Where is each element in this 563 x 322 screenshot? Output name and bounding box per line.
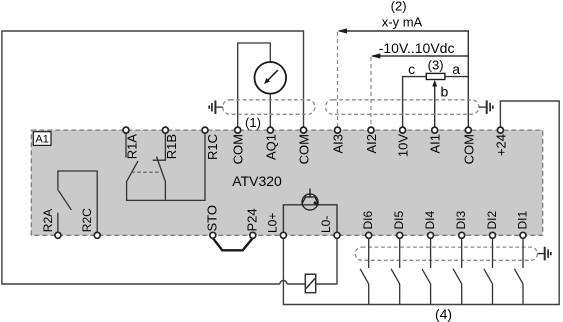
svg-text:DI2: DI2	[485, 211, 499, 230]
svg-text:COM: COM	[231, 134, 246, 164]
svg-text:AQ1: AQ1	[263, 134, 278, 160]
svg-text:DI1: DI1	[516, 211, 530, 230]
svg-text:COM: COM	[461, 134, 476, 164]
svg-text:R1C: R1C	[205, 134, 220, 160]
svg-text:(3): (3)	[428, 58, 444, 73]
svg-text:AI2: AI2	[364, 134, 379, 154]
svg-text:(4): (4)	[435, 306, 452, 322]
svg-text:DI5: DI5	[392, 211, 406, 230]
svg-text:ATV320: ATV320	[232, 173, 282, 189]
svg-text:(1): (1)	[245, 115, 261, 130]
svg-text:A1: A1	[35, 133, 48, 145]
svg-text:L0+: L0+	[265, 213, 279, 233]
svg-text:R2A: R2A	[41, 209, 55, 232]
svg-text:10V: 10V	[396, 134, 411, 157]
svg-text:DI3: DI3	[454, 211, 468, 230]
svg-text:(2): (2)	[391, 0, 407, 14]
svg-text:P24: P24	[244, 208, 259, 231]
svg-text:+24: +24	[493, 134, 508, 156]
svg-text:COM: COM	[297, 134, 312, 164]
svg-text:R1A: R1A	[125, 134, 140, 160]
svg-text:a: a	[452, 61, 460, 77]
svg-text:AI3: AI3	[331, 134, 346, 154]
svg-text:L0-: L0-	[319, 216, 333, 233]
svg-text:DI4: DI4	[423, 211, 437, 230]
svg-text:-10V..10Vdc: -10V..10Vdc	[379, 40, 455, 56]
svg-text:STO: STO	[204, 205, 219, 232]
svg-text:R1B: R1B	[164, 134, 179, 159]
svg-text:x-y mA: x-y mA	[382, 15, 423, 30]
svg-text:AI1: AI1	[428, 134, 443, 154]
svg-text:b: b	[441, 84, 449, 100]
svg-text:DI6: DI6	[361, 211, 375, 230]
svg-text:c: c	[408, 61, 415, 77]
svg-text:R2C: R2C	[80, 208, 94, 232]
